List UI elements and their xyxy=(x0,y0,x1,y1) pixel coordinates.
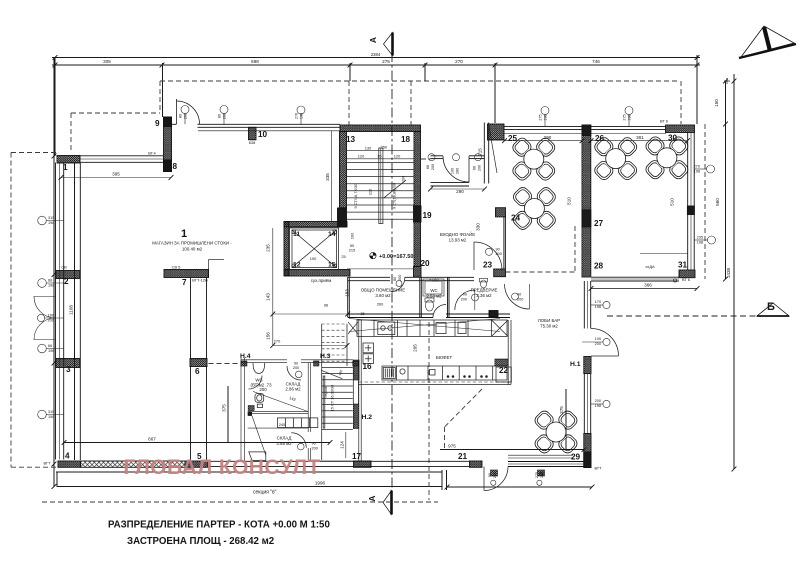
svg-text:ОБЩО ПОМЕЩЕНИЕ: ОБЩО ПОМЕЩЕНИЕ xyxy=(361,288,406,293)
vents foyer top wall xyxy=(428,154,435,161)
svg-text:210: 210 xyxy=(367,188,372,195)
svg-text:330: 330 xyxy=(476,223,481,231)
svg-text:секция "в": секция "в" xyxy=(253,490,277,496)
svg-text:3.68 м2: 3.68 м2 xyxy=(276,441,292,446)
svg-text:9 СТ(16,80)/30: 9 СТ(16,80)/30 xyxy=(392,182,397,209)
elevator shaft walls xyxy=(284,222,347,228)
svg-text:23: 23 xyxy=(483,261,493,270)
svg-text:БЮФЕТ: БЮФЕТ xyxy=(436,355,453,360)
svg-text:30: 30 xyxy=(668,134,678,143)
svg-text:МАГАЗИН ЗА ПРОМИШЛЕНИ СТОКИ -: МАГАЗИН ЗА ПРОМИШЛЕНИ СТОКИ - xyxy=(152,241,232,246)
extension lines top xyxy=(54,57,56,156)
svg-text:35: 35 xyxy=(360,311,364,316)
svg-text:28: 28 xyxy=(594,262,604,271)
section line B dashed xyxy=(607,315,758,317)
room south wall y314 xyxy=(348,314,510,318)
west wall of rooms xyxy=(240,358,242,461)
lobby right window band xyxy=(584,281,590,434)
svg-text:СВ: СВ xyxy=(61,265,67,270)
svg-text:198: 198 xyxy=(697,241,703,245)
svg-text:29: 29 xyxy=(571,453,581,462)
east wall xyxy=(307,363,309,432)
svg-text:198: 198 xyxy=(48,349,54,353)
svg-text:170: 170 xyxy=(595,300,601,304)
door lobby east H.1 xyxy=(591,355,619,357)
svg-text:17: 17 xyxy=(352,452,362,461)
svg-text:275: 275 xyxy=(623,114,627,120)
svg-text:ГЛОБАЛ КОНСУЛТ: ГЛОБАЛ КОНСУЛТ xyxy=(123,456,320,479)
H.2 stair treads dashed upper xyxy=(322,324,348,361)
svg-text:1: 1 xyxy=(181,228,187,240)
svg-text:66: 66 xyxy=(473,166,477,170)
table cluster room 26 xyxy=(593,135,639,181)
svg-text:СВ 5: СВ 5 xyxy=(172,264,181,269)
svg-text:13: 13 xyxy=(346,135,356,144)
svg-text:200: 200 xyxy=(431,164,435,170)
svg-text:66: 66 xyxy=(48,344,52,348)
svg-text:15: 15 xyxy=(377,154,381,159)
svg-text:ВГ.4: ВГ.4 xyxy=(148,151,156,156)
H.2 stair treads xyxy=(322,367,353,429)
vents on restaurant top wall xyxy=(541,107,549,115)
svg-text:250: 250 xyxy=(381,144,388,149)
dimension line top row2 xyxy=(52,64,700,66)
stairwell top wall xyxy=(340,125,421,132)
section marker A top xyxy=(384,33,393,56)
lockers xyxy=(278,418,318,428)
stairwell treads xyxy=(347,162,415,219)
svg-text:335: 335 xyxy=(325,173,330,181)
wall block 31 xyxy=(679,270,695,278)
svg-text:375: 375 xyxy=(222,404,227,412)
section marker A bottom xyxy=(383,491,392,515)
svg-text:638: 638 xyxy=(249,140,256,145)
wall block 21 xyxy=(470,461,483,467)
svg-text:245: 245 xyxy=(279,422,286,427)
svg-text:200: 200 xyxy=(184,113,188,119)
door 23 foyer->lobby xyxy=(473,242,475,270)
svg-text:РАЗПРЕДЕЛЕНИЕ ПАРТЕР - КОТА +0: РАЗПРЕДЕЛЕНИЕ ПАРТЕР - КОТА +0.00 М 1:50 xyxy=(108,520,330,531)
vent obshto xyxy=(396,281,402,287)
svg-text:Н.2: Н.2 xyxy=(362,414,373,421)
interior dim lines restaurant xyxy=(61,131,688,346)
svg-text:215: 215 xyxy=(349,248,356,253)
svg-text:18: 18 xyxy=(401,135,411,144)
svg-text:ВТТ: ВТТ xyxy=(594,466,602,471)
svg-text:120: 120 xyxy=(394,154,401,159)
svg-text:сух.приём: сух.приём xyxy=(311,278,332,283)
svg-text:975: 975 xyxy=(448,444,456,449)
elevator car xyxy=(290,228,339,270)
svg-text:2.53 м2: 2.53 м2 xyxy=(426,294,442,299)
partition 6 lines xyxy=(191,278,207,461)
svg-text:200: 200 xyxy=(461,298,467,302)
svg-text:WC: WC xyxy=(430,288,437,293)
svg-text:200: 200 xyxy=(223,113,227,119)
foyer top wall with entrance door xyxy=(431,156,485,186)
north arrow xyxy=(739,26,796,58)
svg-text:27: 27 xyxy=(594,219,604,228)
svg-text:235: 235 xyxy=(697,236,703,240)
foyer west wall / corridor xyxy=(420,277,422,318)
wc toilet xyxy=(255,394,264,403)
svg-text:198: 198 xyxy=(694,170,700,174)
svg-text:205: 205 xyxy=(413,344,418,352)
svg-text:315: 315 xyxy=(48,410,54,414)
door sklad 2.86 xyxy=(287,366,301,380)
svg-text:200: 200 xyxy=(595,342,601,346)
svg-text:100.40 м2: 100.40 м2 xyxy=(182,247,203,252)
dimension line 1108 inner xyxy=(74,163,76,460)
table cluster room 24 xyxy=(511,185,557,231)
svg-text:156: 156 xyxy=(266,332,271,340)
door lobby south exit xyxy=(483,467,485,491)
room top wall y277 xyxy=(348,277,474,280)
svg-text:21: 21 xyxy=(458,452,468,461)
svg-text:510: 510 xyxy=(670,198,675,206)
vent sklad doors xyxy=(295,371,302,378)
stair dim lines xyxy=(347,149,415,151)
svg-text:200: 200 xyxy=(517,298,523,302)
svg-text:180: 180 xyxy=(48,314,54,318)
door sklad 3.68 xyxy=(291,433,306,448)
door obshto pomeshtenie xyxy=(391,278,405,292)
small dim labels interior xyxy=(43,119,690,471)
svg-text:90: 90 xyxy=(488,473,492,477)
svg-text:560: 560 xyxy=(715,198,720,206)
vents lobby south xyxy=(491,480,496,485)
vents predverie xyxy=(472,294,479,301)
svg-text:510: 510 xyxy=(567,197,572,205)
table cluster room 29 xyxy=(533,409,579,455)
mid wall xyxy=(248,411,309,413)
svg-text:12: 12 xyxy=(293,262,301,269)
table cluster room 30 xyxy=(644,135,690,181)
stairwell right wall xyxy=(414,132,421,267)
restaurant right window wall xyxy=(688,133,695,271)
svg-text:22: 22 xyxy=(499,366,509,375)
svg-text:31: 31 xyxy=(678,261,688,270)
svg-text:ВТ 6: ВТ 6 xyxy=(682,277,690,282)
svg-text:698: 698 xyxy=(251,59,259,64)
svg-text:96: 96 xyxy=(312,442,316,446)
dimension line 375 vertical xyxy=(227,386,229,442)
front wall upper with door xyxy=(172,124,341,131)
svg-text:198: 198 xyxy=(48,284,54,288)
svg-text:66: 66 xyxy=(48,279,52,283)
svg-text:305: 305 xyxy=(103,59,111,64)
svg-text:А: А xyxy=(368,37,378,43)
svg-text:Н.1: Н.1 xyxy=(570,361,581,368)
svg-text:270: 270 xyxy=(274,339,281,344)
niche lines xyxy=(209,260,225,278)
svg-text:66: 66 xyxy=(426,165,430,169)
ground line 1 xyxy=(56,471,442,473)
long cross mark over counter xyxy=(349,319,500,332)
obshto room side walls xyxy=(348,277,449,318)
svg-text:160: 160 xyxy=(350,232,355,239)
section marker B xyxy=(757,303,789,316)
svg-text:120: 120 xyxy=(358,154,365,159)
svg-text:100: 100 xyxy=(451,168,455,174)
wc toilet xyxy=(426,300,434,311)
svg-text:198: 198 xyxy=(544,114,548,120)
south band: block 5 xyxy=(185,461,208,467)
door wc xyxy=(433,305,446,318)
door swing shop entrance xyxy=(177,99,200,124)
svg-text:8: 8 xyxy=(173,162,178,171)
terrace edge lines xyxy=(208,461,471,466)
svg-text:395: 395 xyxy=(112,172,120,177)
svg-text:200: 200 xyxy=(398,275,402,281)
svg-text:2.36 м2: 2.36 м2 xyxy=(476,293,492,298)
svg-text:198: 198 xyxy=(595,404,601,408)
stair arrow diagonal xyxy=(384,180,406,198)
svg-text:290: 290 xyxy=(456,189,464,194)
svg-text:143: 143 xyxy=(266,293,271,301)
svg-text:ВГТ: ВГТ xyxy=(43,461,51,466)
dimension line right inner xyxy=(725,81,727,279)
svg-text:200: 200 xyxy=(259,387,267,392)
stacked vent labels xyxy=(179,113,632,478)
svg-text:280: 280 xyxy=(456,168,460,174)
wall block 10 xyxy=(249,127,257,140)
svg-text:270: 270 xyxy=(455,59,463,64)
stairwell left wall xyxy=(340,132,347,209)
svg-text:190: 190 xyxy=(310,256,317,261)
svg-text:315: 315 xyxy=(48,216,54,220)
svg-text:ЛОБИ БАР: ЛОБИ БАР xyxy=(538,318,560,323)
wall block 23 xyxy=(494,269,506,277)
wall block 1 corner xyxy=(57,156,80,164)
stoves xyxy=(363,343,373,353)
svg-text:26: 26 xyxy=(595,134,605,143)
svg-text:275: 275 xyxy=(539,114,543,120)
svg-text:198: 198 xyxy=(540,472,544,478)
svg-text:19: 19 xyxy=(423,211,433,220)
wall block 3 xyxy=(56,359,80,368)
svg-text:схДА: схДА xyxy=(645,264,655,269)
wall block 30 xyxy=(666,125,695,133)
door predverie small xyxy=(455,290,475,310)
svg-text:А: А xyxy=(367,495,377,501)
dimension line bottom right xyxy=(447,486,592,488)
svg-text:1108: 1108 xyxy=(69,305,74,315)
svg-text:270: 270 xyxy=(295,113,299,119)
pilaster 8-9 xyxy=(164,117,172,172)
svg-text:198: 198 xyxy=(48,221,54,225)
restaurant south window 28-31 xyxy=(591,277,679,281)
buffet lower counter xyxy=(382,366,507,380)
svg-text:1438: 1438 xyxy=(726,267,731,278)
svg-text:14: 14 xyxy=(328,231,336,238)
wall block 2 xyxy=(56,271,80,279)
svg-text:9: 9 xyxy=(155,119,160,128)
svg-text:20: 20 xyxy=(421,259,431,268)
table cluster room 25 xyxy=(511,136,557,182)
svg-text:366: 366 xyxy=(644,283,652,288)
svg-text:16: 16 xyxy=(363,362,373,371)
vent door 23 xyxy=(486,248,493,255)
kitchen top counter xyxy=(357,320,507,336)
svg-text:746: 746 xyxy=(592,59,600,64)
level mark xyxy=(370,252,414,259)
svg-text:198: 198 xyxy=(300,113,304,119)
top window band west xyxy=(80,156,164,163)
kitchen bottom lines xyxy=(359,384,511,386)
wc sink xyxy=(253,363,265,373)
svg-text:200: 200 xyxy=(595,399,601,403)
dimension line 667 xyxy=(64,442,330,444)
svg-text:2.86 м2: 2.86 м2 xyxy=(285,387,301,392)
lobby south window xyxy=(508,455,584,466)
ramp shape corner xyxy=(249,452,266,461)
svg-text:200: 200 xyxy=(493,472,497,478)
svg-text:+0.00=167.50: +0.00=167.50 xyxy=(379,254,414,260)
svg-text:361: 361 xyxy=(636,135,644,140)
svg-text:9 СТ/16,7Х/30: 9 СТ/16,7Х/30 xyxy=(353,183,358,209)
svg-text:275: 275 xyxy=(535,472,539,478)
kitchen left wall lines xyxy=(358,320,360,461)
lobby SE corner column xyxy=(584,434,591,468)
door predverie big xyxy=(505,284,530,309)
block 22 open box xyxy=(496,367,511,382)
svg-text:667: 667 xyxy=(148,437,156,442)
wall block 17 xyxy=(354,461,372,467)
svg-text:10: 10 xyxy=(258,130,268,139)
south band lattice window xyxy=(81,461,186,467)
top wall xyxy=(241,359,287,361)
vents on shop front wall xyxy=(181,106,189,114)
restaurant top wall xyxy=(504,126,666,133)
svg-text:150: 150 xyxy=(714,99,719,107)
svg-text:ВТ 6: ВТ 6 xyxy=(660,119,668,124)
svg-text:1: 1 xyxy=(63,163,68,172)
svg-text:198: 198 xyxy=(595,305,601,309)
svg-text:2384: 2384 xyxy=(371,52,381,57)
svg-text:3: 3 xyxy=(66,365,71,374)
dashed site boundary left xyxy=(11,81,705,502)
wall column 26-27-28 xyxy=(582,125,591,277)
svg-text:200: 200 xyxy=(401,175,406,182)
svg-text:7: 7 xyxy=(182,278,187,287)
svg-text:перила: перила xyxy=(324,386,328,397)
svg-text:25: 25 xyxy=(341,254,345,259)
svg-text:25: 25 xyxy=(508,134,518,143)
svg-text:200: 200 xyxy=(478,165,482,171)
svg-text:183: 183 xyxy=(345,289,350,297)
svg-text:Н.4: Н.4 xyxy=(240,353,251,360)
svg-text:+160: +160 xyxy=(429,278,439,283)
vents lobby east xyxy=(603,301,610,308)
svg-text:24: 24 xyxy=(511,214,521,223)
svg-text:260: 260 xyxy=(377,302,384,307)
svg-text:ПРЕДВЕРИЕ: ПРЕДВЕРИЕ xyxy=(471,288,498,293)
dimension line right outer 1438 xyxy=(733,74,735,469)
dimension line 975 xyxy=(440,449,584,451)
dimension line top overall xyxy=(52,57,700,59)
svg-text:15: 15 xyxy=(328,262,336,269)
svg-text:80: 80 xyxy=(393,277,397,281)
svg-text:4: 4 xyxy=(65,452,70,461)
svg-text:130: 130 xyxy=(365,146,372,151)
svg-text:Б: Б xyxy=(767,301,775,313)
vents left wall xyxy=(38,216,47,225)
svg-text:СКЛАД: СКЛАД xyxy=(277,436,292,441)
svg-text:198: 198 xyxy=(628,114,632,120)
section line A vertical dash-dot xyxy=(391,52,393,512)
H.2 side wall lines xyxy=(352,366,354,404)
svg-text:15 СТ 16.00/30: 15 СТ 16.00/30 xyxy=(330,384,335,412)
svg-text:ЗАСТРОЕНА ПЛОЩ - 268.42 м2: ЗАСТРОЕНА ПЛОЩ - 268.42 м2 xyxy=(127,536,274,547)
svg-text:270: 270 xyxy=(694,165,700,169)
svg-text:80: 80 xyxy=(218,114,222,118)
svg-text:275: 275 xyxy=(382,59,390,64)
svg-text:13.93 м2: 13.93 м2 xyxy=(449,238,467,243)
svg-text:90: 90 xyxy=(517,293,521,297)
svg-text:198: 198 xyxy=(48,415,54,419)
svg-text:1996: 1996 xyxy=(315,481,326,486)
svg-text:11: 11 xyxy=(293,231,300,238)
south band: block 4 xyxy=(58,461,81,467)
dim texts top xyxy=(103,59,652,485)
svg-text:Н.3: Н.3 xyxy=(320,353,331,360)
svg-text:2: 2 xyxy=(64,277,69,286)
door wc H.4 xyxy=(249,376,263,390)
svg-text:200: 200 xyxy=(312,447,318,451)
vents right side xyxy=(707,165,715,173)
X-box end of counter xyxy=(492,320,509,336)
foyer-dining divider block 24 xyxy=(496,208,506,217)
svg-text:ВГТ-12м: ВГТ-12м xyxy=(192,278,208,283)
wall 7 xyxy=(164,270,209,278)
svg-text:3.60 м2: 3.60 м2 xyxy=(375,293,391,298)
svg-text:96: 96 xyxy=(324,303,328,308)
svg-text:80: 80 xyxy=(179,114,183,118)
svg-text:100: 100 xyxy=(595,337,601,341)
svg-text:75.30 м2: 75.30 м2 xyxy=(540,324,558,329)
svg-text:124: 124 xyxy=(340,441,345,449)
hall line under stairwell xyxy=(347,268,414,270)
left window wall xyxy=(56,163,81,461)
restaurant left wall xyxy=(484,123,497,184)
wc shower xyxy=(423,279,444,296)
svg-text:90: 90 xyxy=(496,248,500,252)
svg-text:90: 90 xyxy=(463,293,467,297)
svg-text:235: 235 xyxy=(266,244,271,252)
svg-text:ВХОДНО ФОАЙЕ: ВХОДНО ФОАЙЕ xyxy=(440,232,475,237)
kitchen right end wall xyxy=(507,320,509,385)
ground line 2 / dim 1996 xyxy=(57,486,442,488)
dimension line 375 table xyxy=(565,389,567,449)
svg-text:200: 200 xyxy=(496,252,502,256)
svg-text:6: 6 xyxy=(195,367,200,376)
svg-text:200: 200 xyxy=(293,366,299,370)
diagonal room line xyxy=(253,391,308,411)
dimension line left vertical xyxy=(53,57,55,487)
svg-text:200: 200 xyxy=(48,319,54,323)
stairwell rail xyxy=(379,148,383,224)
predverie sink xyxy=(481,280,487,288)
